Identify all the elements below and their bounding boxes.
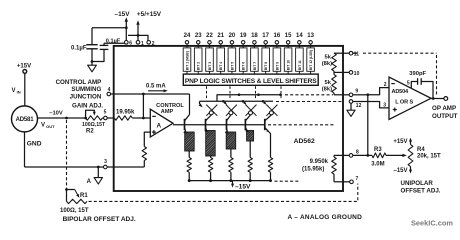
svg-text:SUMMING: SUMMING	[71, 86, 101, 93]
wire -15V bypass branch	[92, 27, 126, 29]
bit box BIT 11	[296, 48, 304, 71]
svg-text:JUNCTION: JUNCTION	[70, 93, 102, 100]
svg-text:20k, 15T: 20k, 15T	[417, 153, 441, 159]
capacitor C1 0.1uF bypass	[91, 28, 93, 45]
junction analog ground node	[97, 166, 100, 169]
junction rail B node	[222, 100, 225, 103]
pin 1 (+5/+15V logic supply pin)	[136, 41, 140, 45]
svg-text:13: 13	[307, 33, 314, 39]
pin 12 (offset/ground)	[349, 100, 353, 104]
svg-text:R1: R1	[80, 193, 88, 199]
wire dashed logic drive bit switch 4	[280, 86, 282, 99]
svg-text:IN: IN	[17, 89, 21, 94]
junction ladder resistor to rail	[209, 179, 212, 182]
bit box BIT 2	[194, 48, 202, 71]
svg-text:19.95k: 19.95k	[116, 109, 135, 115]
wire 19.95k to control amp	[132, 117, 150, 119]
wire dashed logic drive bit switch 2	[229, 86, 231, 99]
multi-emitter hatch Q2	[206, 131, 216, 157]
wire -15V emitter rail	[189, 180, 271, 182]
wire pin 8 into box	[334, 154, 349, 156]
wire Q1 emitter to ladder resistor	[188, 151, 190, 158]
svg-text:A: A	[156, 123, 161, 130]
switch S2 current steering	[226, 105, 237, 116]
svg-text:BIT 6: BIT 6	[242, 62, 246, 70]
svg-text:GAIN ADJ.: GAIN ADJ.	[72, 103, 103, 110]
svg-text:(15.95k): (15.95k)	[302, 167, 324, 173]
junction pin9 node	[366, 93, 369, 96]
svg-text:2: 2	[384, 82, 387, 88]
svg-text:A – ANALOG GROUND: A – ANALOG GROUND	[288, 214, 363, 221]
svg-text:5k: 5k	[325, 55, 332, 61]
svg-text:–10V: –10V	[49, 111, 63, 117]
svg-text:BIT 7: BIT 7	[253, 62, 257, 70]
resistor ladder R ladder 5	[268, 158, 272, 173]
arrow 0.5mA direction	[148, 90, 166, 92]
bit box BIT 1 (MSB)	[183, 48, 191, 71]
resistor ladder R ladder 2	[208, 158, 212, 173]
junction ladder resistor to rail	[188, 179, 191, 182]
ground A analog ground symbol	[97, 167, 99, 178]
svg-text:+15V: +15V	[17, 64, 31, 70]
wire switch output rail B	[200, 100, 274, 102]
wire sum node to control amp input	[142, 94, 144, 118]
pin 8 (bipolar offset)	[349, 154, 353, 158]
wire dashed VOUT to R1	[66, 120, 68, 190]
block PNP LOGIC SWITCHES & LEVEL SHIFTERS	[183, 74, 318, 85]
svg-text:23: 23	[195, 33, 202, 39]
svg-text:+15V: +15V	[393, 139, 407, 145]
resistor 19.95k reference input	[114, 116, 132, 120]
svg-text:15: 15	[285, 33, 292, 39]
wire 390pF to output	[421, 82, 433, 99]
IC outline AD562 package box	[114, 46, 343, 191]
ground symbol below bypass caps	[91, 62, 93, 66]
bit box BIT 8	[262, 48, 270, 71]
svg-text:–15V: –15V	[235, 183, 251, 190]
wire control amp + input	[144, 132, 150, 146]
svg-text:R2: R2	[86, 129, 94, 135]
svg-text:GND: GND	[27, 140, 42, 147]
pin 6 (-15V supply pin)	[125, 41, 129, 45]
capacitor C3 390pF	[417, 78, 419, 85]
wire switch output rail A	[217, 95, 282, 102]
bit box BIT 5	[228, 48, 236, 71]
wire +15V to AD581	[24, 73, 26, 106]
svg-text:3: 3	[383, 102, 386, 108]
arrow switch pole	[243, 101, 245, 103]
svg-text:9.950k: 9.950k	[310, 159, 329, 165]
svg-text:AMP: AMP	[161, 109, 174, 115]
svg-text:BIT 12 (LSB): BIT 12 (LSB)	[309, 50, 313, 70]
svg-text:11: 11	[354, 51, 360, 57]
wire rail dashed continuation	[275, 180, 300, 182]
svg-text:6: 6	[129, 41, 132, 47]
op-amp U3 control amp	[150, 109, 173, 137]
wire pin 10 tap	[333, 71, 335, 72]
wire base rail dashed continuation	[268, 124, 334, 126]
svg-text:20: 20	[229, 33, 236, 39]
svg-text:390pF: 390pF	[409, 71, 426, 77]
junction bypass ground node	[91, 60, 94, 63]
svg-text:–15V: –15V	[115, 11, 131, 18]
junction +5/+15V node	[137, 34, 140, 37]
svg-text:BIT 5: BIT 5	[230, 62, 234, 70]
resistor 9.950k bipolar offset	[333, 155, 335, 157]
wire +5/+15V supply drop	[137, 23, 139, 36]
svg-text:17: 17	[262, 33, 269, 39]
capacitor C2 0.1uF bypass	[104, 42, 125, 44]
svg-text:A: A	[87, 179, 92, 185]
junction pin8 node	[366, 154, 369, 157]
svg-text:OP AMP: OP AMP	[432, 105, 456, 112]
wire pin 12 to op-amp non-inverting input	[353, 102, 389, 108]
wire Q4 emitter to ladder resistor	[249, 141, 251, 158]
svg-text:0.5 mA: 0.5 mA	[146, 84, 166, 90]
svg-text:CONTROL AMP: CONTROL AMP	[56, 79, 102, 86]
svg-text:10: 10	[354, 71, 360, 77]
svg-text:22: 22	[206, 33, 213, 39]
svg-text:3: 3	[104, 159, 107, 165]
wire -15V supply drop	[125, 20, 127, 41]
wire lower 5k to pin 9	[334, 94, 349, 96]
pin 11 (feedback)	[349, 51, 353, 55]
wire summing junction rail	[111, 93, 190, 95]
pin 9 (DAC output)	[349, 93, 353, 97]
wire R4 to -15V	[410, 167, 412, 172]
svg-text:+5/+15V: +5/+15V	[137, 11, 162, 18]
wire op-amp output	[431, 98, 444, 100]
wire op-amp input to pin8 node	[367, 95, 369, 156]
svg-text:9: 9	[355, 88, 358, 94]
transistor Q1 current source	[184, 119, 186, 130]
svg-text:L OR S: L OR S	[395, 100, 413, 106]
terminal op amp output	[444, 97, 448, 101]
wire sum rail down to reference transistor collector	[189, 94, 191, 115]
svg-text:5k: 5k	[325, 80, 332, 86]
potentiometer R2 100 ohm 15T gain adjust	[86, 116, 103, 120]
resistor ladder R ladder 3	[229, 158, 233, 173]
switch S4 current steering	[266, 105, 277, 116]
junction rail A node	[279, 93, 282, 96]
pin 5 (gain adjust / reference input)	[102, 117, 103, 119]
resistor R3 3.0M	[372, 153, 386, 158]
svg-text:1: 1	[141, 41, 144, 47]
svg-text:SeekIC.com: SeekIC.com	[411, 218, 453, 227]
wire analog ground rail	[25, 166, 145, 168]
svg-text:2: 2	[152, 41, 155, 47]
junction rail B node	[262, 100, 265, 103]
svg-text:BIT 1 (MSB): BIT 1 (MSB)	[185, 51, 189, 70]
bit box BIT 4	[217, 48, 225, 71]
wire Q3 emitter to ladder resistor	[230, 149, 232, 158]
pin 7 (bipolar offset out)	[350, 180, 354, 184]
wire control amp output base rail	[173, 124, 265, 126]
transistor Q4 current source	[244, 119, 246, 130]
svg-text:0.1µF: 0.1µF	[106, 38, 121, 44]
wire dashed R1 to pin 7	[89, 184, 358, 202]
wire pin 9 to op-amp inverting input	[353, 94, 368, 96]
svg-text:3.0M: 3.0M	[371, 161, 384, 167]
svg-text:–15V: –15V	[393, 168, 407, 174]
svg-text:0.1µF: 0.1µF	[71, 46, 87, 52]
svg-text:OUT: OUT	[46, 124, 55, 129]
junction rail A node	[238, 93, 241, 96]
svg-text:19: 19	[240, 33, 247, 39]
wire R3 to R4 wiper arrow	[386, 154, 404, 156]
wire dashed logic drive bit switch 3	[255, 86, 257, 99]
wire R4 to +15V	[410, 139, 412, 144]
arrow switch pole	[263, 101, 265, 103]
ground symbol pin 12	[350, 103, 352, 110]
svg-text:UNIPOLAR: UNIPOLAR	[401, 180, 434, 187]
multi-emitter hatch Q3	[226, 132, 236, 149]
junction output node	[432, 97, 435, 100]
svg-text:100Ω,15T: 100Ω,15T	[82, 122, 106, 128]
junction rail B node	[242, 100, 245, 103]
junction ladder resistor to rail	[249, 179, 252, 182]
svg-text:BIPOLAR OFFSET ADJ.: BIPOLAR OFFSET ADJ.	[63, 216, 136, 223]
transistor Q3 current source	[226, 119, 228, 130]
wire rail A dashed to pin 9	[285, 94, 333, 96]
pin 2 (logic supply pin)	[147, 41, 151, 45]
junction ladder resistor to rail	[229, 179, 232, 182]
switch S1 current steering	[206, 105, 217, 116]
svg-text:PNP LOGIC SWITCHES & LEVEL SHI: PNP LOGIC SWITCHES & LEVEL SHIFTERS	[185, 78, 317, 85]
svg-text:14: 14	[296, 33, 303, 39]
terminal +15V	[23, 70, 27, 74]
junction R1 wiper node	[65, 188, 68, 191]
svg-text:OUTPUT: OUTPUT	[432, 113, 458, 120]
resistor 5k (8k) feedback lower	[332, 75, 337, 94]
svg-text:R3: R3	[374, 147, 382, 153]
svg-text:100Ω, 15T: 100Ω, 15T	[60, 208, 89, 214]
resistor ladder R ladder 4	[248, 158, 252, 173]
svg-text:12: 12	[356, 103, 362, 109]
svg-text:AD581: AD581	[16, 117, 35, 123]
junction -15V node	[125, 26, 128, 29]
junction ladder resistor to rail	[269, 179, 272, 182]
reference U2 AD581 voltage reference	[12, 106, 38, 132]
resistor ladder R ladder 1	[187, 158, 191, 173]
bit box BIT 7	[251, 48, 259, 71]
wire dashed logic drive bit switch 1	[206, 86, 208, 99]
wire feedback dashed from pin 11	[353, 52, 357, 54]
resistor 5k (8k) feedback upper	[334, 52, 349, 54]
svg-text:7: 7	[356, 176, 359, 182]
svg-text:R4: R4	[417, 147, 425, 153]
svg-text:OFFSET ADJ.: OFFSET ADJ.	[401, 187, 441, 194]
wire rail B dashed to pin 12	[276, 101, 344, 103]
bit box BIT 3	[206, 48, 214, 71]
op-amp U1 AD504 output amplifier	[389, 77, 431, 120]
svg-text:BIT 4: BIT 4	[219, 62, 223, 70]
switch S3 current steering	[246, 105, 257, 116]
wire pin 8 to R3	[353, 154, 372, 156]
arrow switch pole	[223, 101, 225, 103]
wire 9.950k to pin 7	[334, 181, 350, 183]
svg-text:BIT 10: BIT 10	[287, 60, 291, 70]
svg-text:(8k): (8k)	[322, 61, 332, 67]
svg-text:5: 5	[104, 110, 107, 116]
svg-text:BIT 3: BIT 3	[208, 62, 212, 70]
wire comp pin to 390pF	[411, 82, 417, 89]
resistor control amp + input bias	[142, 147, 146, 161]
svg-text:(8k): (8k)	[322, 86, 332, 92]
wire logic supply bar to pins 1 and 2	[128, 35, 148, 40]
svg-text:16: 16	[274, 33, 281, 39]
svg-text:AD504: AD504	[392, 89, 410, 95]
svg-text:24: 24	[184, 33, 191, 39]
wire AD581 VOUT to gain pot	[38, 117, 86, 119]
junction rail A node	[257, 93, 260, 96]
junction sum node	[142, 93, 145, 96]
net -15V rail label and arrow	[232, 181, 234, 186]
svg-text:BIT 9: BIT 9	[275, 62, 279, 70]
wire AD581 GND down	[24, 132, 26, 167]
potentiometer R4 20k 15T	[408, 145, 413, 167]
multi-emitter hatch Q4	[247, 131, 254, 142]
svg-text:8: 8	[356, 150, 359, 156]
transistor Q2 current source	[205, 119, 207, 130]
svg-text:BIT 11: BIT 11	[298, 60, 302, 70]
svg-text:AD562: AD562	[294, 138, 315, 145]
svg-text:18: 18	[251, 33, 258, 39]
pin 10 (feedback tap)	[349, 71, 353, 75]
svg-text:BIT 2: BIT 2	[197, 62, 201, 70]
bit box BIT 6	[239, 48, 247, 71]
pin 3 (analog ground)	[104, 165, 108, 169]
svg-text:BIT 8: BIT 8	[264, 62, 268, 70]
wire Q2 emitter to ladder resistor	[210, 156, 212, 158]
svg-text:5: 5	[407, 80, 410, 86]
bit box BIT 12 (LSB)	[307, 48, 315, 71]
svg-text:V: V	[41, 122, 45, 128]
bit box BIT 9	[273, 48, 281, 71]
potentiometer R1 100 ohm 15T bipolar offset	[66, 190, 68, 202]
multi-emitter hatch Q1	[185, 132, 195, 151]
svg-text:V: V	[12, 88, 16, 94]
bit box BIT 10	[284, 48, 292, 71]
junction VOUT node	[65, 117, 68, 120]
transistor Q5 current source	[264, 119, 266, 130]
svg-text:21: 21	[217, 33, 224, 39]
